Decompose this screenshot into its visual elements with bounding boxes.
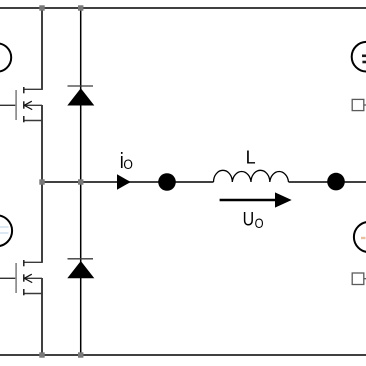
svg-text:L: L — [246, 147, 256, 167]
port square lower-right — [352, 273, 366, 285]
diode D1 (upper freewheeling diode) — [67, 86, 94, 106]
gate source circle upper-left — [0, 43, 11, 71]
gate source circle lower-left — [0, 215, 12, 246]
junction top rail / D1 — [78, 5, 83, 10]
node dot right — [327, 173, 345, 191]
meter circle lower-right — [354, 222, 366, 252]
wire Q2 source lead — [41, 278, 43, 355]
svg-text:O: O — [123, 157, 133, 173]
junction bottom rail / D2 — [78, 352, 83, 357]
label iO — [120, 150, 133, 174]
node dot output — [158, 173, 176, 191]
wire output node to inductor — [42, 181, 214, 183]
inductor L — [214, 170, 289, 182]
svg-text:O: O — [255, 215, 264, 231]
wire diode leg D1/D2 — [80, 8, 82, 355]
wire Q1 source lead — [41, 105, 43, 182]
meter circle upper-right — [352, 42, 366, 72]
wire Q2 gate lead — [0, 277, 15, 279]
diode D2 (lower freewheeling diode) — [67, 259, 94, 279]
junction mid rail / D — [78, 179, 83, 184]
junction bottom rail / Q2 — [39, 352, 44, 357]
transistor Q2 (lower MOSFET) — [16, 260, 42, 295]
wire top DC rail — [0, 7, 366, 9]
port square upper-right — [352, 99, 366, 110]
junction top rail / Q1 — [39, 5, 44, 10]
svg-text:U: U — [243, 208, 255, 230]
current direction arrow iO — [117, 174, 131, 189]
junction mid rail / Q — [39, 179, 44, 184]
wire bottom DC rail — [0, 354, 366, 356]
transistor Q1 (upper MOSFET) — [16, 87, 42, 122]
wire Q1 gate lead — [0, 104, 15, 106]
wire Q2 drain lead — [41, 182, 43, 263]
voltage arrow UO — [220, 192, 292, 207]
wire inductor to right edge — [289, 181, 366, 183]
label UO — [243, 208, 264, 231]
wire Q1 drain lead — [41, 8, 43, 90]
